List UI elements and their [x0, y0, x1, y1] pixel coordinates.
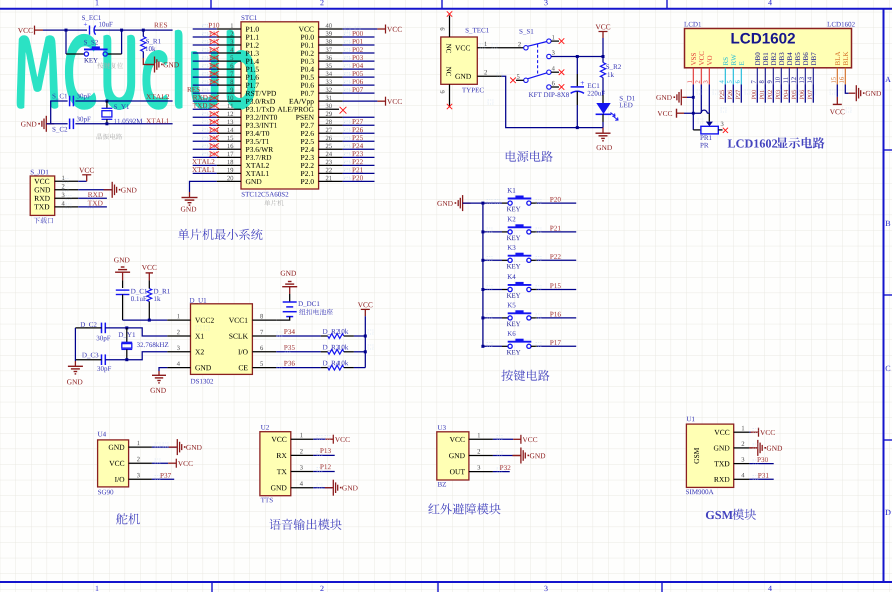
- net label RXD: [88, 192, 103, 197]
- net label P00: [752, 90, 756, 99]
- U3 pin 3: [469, 471, 493, 473]
- power port GND crystal: [46, 123, 54, 125]
- net label P37 (noerc): [209, 152, 218, 156]
- wire: [602, 78, 604, 95]
- MCU pin 17 P3.7/RD: [246, 155, 272, 160]
- wire: [276, 335, 321, 337]
- MCU pin 26 P2.5: [301, 139, 314, 144]
- wire BLA: [836, 85, 838, 97]
- power port GND reset: [146, 64, 155, 66]
- net label P14 (noerc): [209, 56, 218, 60]
- MCU pin 36 P0.3: [301, 59, 314, 64]
- MCU pin 7 P1.6: [246, 75, 259, 80]
- LCD pin 5 RW: [731, 54, 736, 65]
- resistor S_R1: [141, 37, 146, 52]
- wire MCU GND pin20: [190, 181, 217, 192]
- wire: [75, 123, 172, 125]
- net label P21: [352, 167, 363, 172]
- wire: [343, 172, 375, 174]
- key K5: [481, 316, 484, 319]
- resistor D_R1: [148, 280, 150, 288]
- wire: [343, 92, 375, 94]
- MCU U4 SG90: [98, 432, 106, 437]
- wire: [749, 447, 757, 449]
- net label P27: [352, 119, 363, 124]
- U2 pin 1: [291, 438, 313, 440]
- DS1302 pin 1: [167, 319, 190, 321]
- net label P01: [352, 39, 363, 44]
- LCD pin 12 DB5: [795, 53, 800, 66]
- power port GND lcd left: [677, 89, 681, 105]
- net label P02: [768, 90, 772, 99]
- net label P35 (noerc): [209, 136, 218, 140]
- DS1302 pin 5: [252, 367, 276, 369]
- no-erc mark: [447, 11, 452, 16]
- U2 pin 2: [291, 454, 313, 456]
- wire: [193, 164, 217, 166]
- MCU pin 35 P0.4: [301, 67, 314, 72]
- potentiometer PR1: [701, 126, 718, 134]
- wire: [46, 123, 50, 125]
- U1 pin 4: [734, 478, 750, 480]
- crystal S_Y1: [106, 101, 108, 108]
- net label P05: [792, 90, 796, 99]
- key K3: [481, 259, 484, 262]
- wire: [343, 164, 375, 166]
- LCD pin 3 VO: [707, 56, 712, 66]
- MCU pin 4 P1.3: [246, 51, 259, 56]
- LCD pin 8 DB1: [763, 53, 768, 66]
- wire: [152, 446, 176, 448]
- label download port: [34, 217, 53, 223]
- net label P24: [352, 143, 363, 148]
- MCU pin 18 XTAL2: [246, 163, 269, 168]
- MCU pin 20 GND: [246, 179, 262, 184]
- MCU pin 25 P2.4: [301, 147, 314, 152]
- U3 pin 2: [469, 455, 493, 457]
- key K6: [481, 345, 484, 348]
- MCU pin 10 P3.0/RxD: [246, 99, 275, 104]
- wire: [756, 85, 758, 103]
- node r2 top: [602, 55, 605, 58]
- MCU pin 38 P0.1: [301, 43, 314, 48]
- net label P22: [352, 159, 363, 164]
- wire: [463, 202, 483, 204]
- MCU pin 24 P2.3: [301, 155, 314, 160]
- net label P31: [758, 473, 769, 478]
- MCU pin 40 VCC: [299, 27, 314, 32]
- capacitor S_C1: [70, 96, 74, 107]
- MCU STC1 box: [241, 22, 319, 189]
- wire: [749, 431, 750, 433]
- MCU pin 3 P1.2: [246, 43, 259, 48]
- net label P13 (noerc): [209, 48, 218, 52]
- U4 pin 3: [129, 478, 152, 480]
- net label P34 (noerc): [209, 128, 218, 132]
- node vss-vcc cross: [692, 112, 695, 115]
- power port VCC power-circuit: [599, 31, 608, 33]
- pin 2 wire: [55, 189, 78, 191]
- wire: [343, 180, 375, 182]
- net label P05: [352, 71, 363, 76]
- node reset-left: [65, 29, 68, 32]
- wire: [193, 92, 217, 94]
- power port GND u4: [169, 446, 178, 448]
- wire: [193, 124, 217, 126]
- MCU pin 34 P0.5: [301, 75, 314, 80]
- wire PSEN: [343, 116, 375, 118]
- net label RES: [187, 87, 200, 92]
- LCD pin 10 DB3: [779, 53, 784, 66]
- resistor S_R2: [600, 63, 605, 78]
- wire: [75, 100, 172, 102]
- switch pin1 stub: [551, 40, 559, 42]
- wire gnd path: [502, 76, 603, 127]
- no-erc mark pot: [723, 128, 728, 133]
- wire: [812, 85, 814, 103]
- MCU pin 27 P2.6: [301, 131, 314, 136]
- capacitor S_EC1: [90, 26, 96, 35]
- net label P30: [757, 457, 768, 462]
- ground MCU: [182, 198, 198, 206]
- MCU subtitle: [242, 192, 289, 197]
- MCU pin 30 ALE/PROG: [277, 107, 313, 112]
- MCU pin 15 P3.5/T1: [246, 139, 269, 144]
- net label P17: [550, 340, 561, 345]
- MCU pin 2 P1.1: [246, 35, 259, 40]
- wire: [724, 85, 726, 103]
- wire: [493, 471, 510, 473]
- wire: [682, 96, 687, 98]
- wire: [152, 478, 174, 480]
- key K1: [483, 202, 502, 204]
- MCU pin 19 XTAL1: [246, 171, 269, 176]
- MCU pin 12 P3.2/INT0: [246, 115, 277, 120]
- wire: [354, 335, 365, 337]
- switch pin6 stub: [551, 86, 559, 88]
- capacitor EC1 220uF: [576, 57, 578, 75]
- net label TXD: [88, 201, 103, 206]
- MCU U2 TTS: [261, 425, 269, 430]
- wire: [493, 455, 513, 457]
- net label XTAL2: [192, 159, 214, 164]
- wire: [343, 76, 375, 78]
- MCUclub watermark: [17, 30, 256, 110]
- capacitor S_C2: [70, 119, 74, 130]
- node xtal1: [105, 122, 108, 125]
- no-erc mark: [447, 104, 452, 109]
- MCU pin 33 P0.6: [301, 83, 314, 88]
- wire: [75, 359, 101, 361]
- net label P15: [550, 283, 561, 288]
- wire: [193, 44, 217, 46]
- wire: [796, 85, 798, 103]
- switch pin5 stub: [516, 79, 524, 81]
- node ec1 bottom: [576, 126, 579, 129]
- U1 pin 3: [734, 463, 750, 465]
- net label P26: [728, 90, 732, 99]
- MCU pin 39 P0.0: [301, 35, 314, 40]
- MCU pin 6 P1.5: [246, 67, 259, 72]
- label TYPEC: [462, 88, 484, 93]
- MCU pin 8 P1.7: [246, 83, 259, 88]
- power port GND keypad: [463, 202, 471, 204]
- wire: [343, 44, 375, 46]
- DS1302 pin 6: [252, 351, 276, 353]
- power port VCC ds1302: [361, 308, 370, 310]
- switch lever 2-1: [528, 42, 548, 47]
- DS1302 pin 2: [167, 335, 190, 337]
- wire: [780, 85, 782, 103]
- net label P20: [352, 175, 363, 180]
- LCD pin 7 DB0: [755, 53, 760, 66]
- node xtal d2: [125, 358, 128, 361]
- ground battery: [281, 271, 296, 276]
- power port GND u2: [325, 487, 334, 489]
- caption key circuit: [501, 370, 549, 381]
- key K4: [481, 288, 484, 291]
- node reset-r1: [142, 29, 145, 32]
- caption lcd circuit: [728, 139, 777, 147]
- wire: [313, 438, 325, 440]
- wire: [121, 30, 123, 54]
- wire: [193, 132, 217, 134]
- wire VO wiper: [708, 85, 710, 114]
- MCU pin 32 P0.7: [301, 91, 314, 96]
- caption servo: [116, 513, 140, 524]
- wire: [749, 478, 773, 480]
- caption power circuit: [506, 151, 553, 162]
- wire: [343, 124, 375, 126]
- switch S_S2 KEY: [66, 53, 84, 55]
- wire: [343, 156, 375, 158]
- MCU pin 9 RST/VPD: [246, 91, 276, 96]
- DS1302 pin 7: [252, 335, 276, 337]
- wire: [276, 367, 321, 369]
- wire: [772, 85, 774, 103]
- wire: [343, 132, 375, 134]
- connector S_JD1: [31, 170, 49, 176]
- net label P34: [284, 329, 295, 334]
- power port GND lcd blk: [856, 85, 860, 101]
- wire xtal bus: [51, 101, 68, 124]
- node ec1 top: [576, 55, 579, 58]
- wire: [732, 85, 734, 103]
- pin 2 wire GND: [477, 75, 501, 77]
- power port VCC u2: [332, 435, 334, 444]
- MCU pin 37 P0.2: [301, 51, 314, 56]
- wire: [276, 351, 321, 353]
- pin 9 stub top: [449, 15, 451, 37]
- wire: [193, 156, 217, 158]
- net label RXD: [193, 95, 208, 100]
- wire: [193, 148, 217, 150]
- pin 3 wire: [55, 197, 78, 199]
- wire: [749, 463, 773, 465]
- LCD pin 2 VCC: [699, 52, 704, 66]
- wire: [35, 29, 44, 31]
- node key bus top: [481, 202, 484, 205]
- ground power-circuit: [602, 128, 604, 134]
- wire: [764, 85, 766, 103]
- net label XTAL1: [146, 118, 169, 123]
- label KFT DIP-8X8: [529, 92, 569, 97]
- wire: [193, 172, 217, 174]
- net label P23: [352, 151, 363, 156]
- capacitor D_C3: [82, 353, 98, 359]
- LCD pin 1 VSS: [691, 53, 696, 65]
- wire x1: [105, 328, 167, 336]
- power port VCC lcd left: [657, 111, 672, 116]
- net label P11 (noerc): [209, 31, 218, 35]
- MCU pin 28 P2.7: [301, 123, 314, 128]
- wire hop: [701, 110, 707, 113]
- key K2: [481, 230, 484, 233]
- MCU pin 29 PSEN: [296, 115, 314, 120]
- net label P02: [352, 47, 363, 52]
- wire: [143, 58, 154, 65]
- power port GND jd1: [104, 189, 113, 191]
- wire: [354, 351, 365, 353]
- net label P06: [352, 79, 363, 84]
- MCU pin 5 P1.4: [246, 59, 259, 64]
- wire: [193, 84, 217, 86]
- net label P17 (noerc): [209, 80, 218, 84]
- power port VCC jd1: [82, 174, 91, 176]
- wire: [95, 29, 173, 31]
- wire: [677, 112, 685, 114]
- switch pin3 wire: [551, 56, 603, 58]
- node xtal2: [105, 100, 108, 103]
- wire: [193, 76, 217, 78]
- wire: [193, 108, 217, 110]
- MCU D_U1 DS1302: [190, 298, 207, 304]
- net label P35: [284, 345, 295, 350]
- net label P01: [760, 90, 764, 99]
- battery D_DC1 coin cell: [289, 294, 291, 302]
- capacitor D_C1: [122, 280, 124, 288]
- net label P07: [808, 90, 812, 99]
- border zone numbers: [96, 0, 99, 5]
- net label P13: [320, 448, 331, 453]
- label crystal caption gray: [97, 133, 123, 139]
- switch S_S1: [520, 29, 534, 35]
- MCU pin 11 P3.1/TxD: [246, 107, 275, 112]
- connector S_TEC1 TYPEC: [466, 28, 489, 34]
- label reset caption gray: [97, 62, 123, 68]
- LCD pin 13 DB6: [803, 53, 808, 66]
- border zone letters: [885, 77, 891, 82]
- MCU U1 GSM: [687, 417, 695, 422]
- MCU pin 23 P2.2: [301, 163, 314, 168]
- U3 pin 1: [469, 438, 493, 440]
- wire: [193, 52, 217, 54]
- power port VCC D_R1: [142, 265, 157, 270]
- U1 pin 2: [734, 447, 750, 449]
- LCD pin 15 BLA: [835, 52, 840, 66]
- DS1302 pin 4: [167, 367, 190, 369]
- no-erc mark pin30: [340, 107, 347, 114]
- wire cap bus: [74, 328, 76, 361]
- wire: [193, 68, 217, 70]
- wire: [377, 100, 385, 102]
- wire: [343, 148, 375, 150]
- net label P20: [550, 197, 561, 202]
- wire: [343, 52, 375, 54]
- MCU U3 BZ: [438, 425, 446, 430]
- LCD pin 6 E: [739, 62, 744, 66]
- net label P06: [800, 90, 804, 99]
- resistor D_R3 10k: [321, 351, 328, 353]
- net label P15 (noerc): [209, 64, 218, 68]
- wire: [193, 36, 217, 38]
- MCU pin 22 P2.1: [301, 171, 314, 176]
- U2 pin 4: [291, 487, 313, 489]
- node reset-right: [120, 29, 123, 32]
- wire: [193, 100, 217, 102]
- MCU U STC1: [242, 15, 257, 20]
- net label RES: [154, 23, 167, 28]
- net label P22: [550, 254, 561, 259]
- wire: [313, 487, 332, 489]
- net label P37: [160, 473, 171, 478]
- crystal D_Y1: [126, 328, 128, 342]
- net label XTAL1: [192, 167, 214, 172]
- wire: [51, 123, 68, 125]
- wire pot left: [693, 129, 701, 131]
- wire: [343, 36, 375, 38]
- wire vcc2: [123, 319, 168, 321]
- LCD pin 9 DB2: [771, 53, 776, 66]
- wire: [343, 68, 375, 70]
- DS1302 pin 3: [167, 351, 190, 353]
- net label P25: [720, 90, 724, 99]
- LCD pin 16 BLK: [843, 52, 848, 66]
- wire: [152, 462, 168, 464]
- wire: [193, 60, 217, 62]
- power port GND u3: [512, 455, 521, 457]
- wire gnd ds1302: [159, 368, 167, 371]
- wire: [65, 30, 67, 54]
- MCU pin 1 P1.0: [246, 27, 259, 32]
- U4 pin 1: [129, 446, 152, 448]
- wire: [122, 295, 124, 321]
- net label P32 (noerc): [209, 112, 218, 116]
- wire: [788, 85, 790, 103]
- net label P36 (noerc): [209, 144, 218, 148]
- net label P25: [352, 135, 363, 140]
- wire: [313, 454, 335, 456]
- ground D_C1 top: [114, 258, 129, 263]
- wire: [313, 471, 335, 473]
- border ticks: [211, 0, 892, 592]
- power port VCC reset: [34, 26, 36, 35]
- pin 4 wire: [55, 206, 78, 208]
- pin 1 wire VCC: [477, 47, 523, 49]
- wire: [354, 367, 365, 369]
- net label P36: [284, 361, 295, 366]
- wire VCC pin down: [700, 85, 702, 114]
- wire x2: [105, 352, 167, 360]
- wire: [343, 140, 375, 142]
- switch pin4 stub: [551, 71, 559, 73]
- net label P10: [209, 23, 220, 28]
- wire: [804, 85, 806, 103]
- net label P00: [352, 31, 363, 36]
- DS1302 pin 8: [252, 319, 276, 321]
- net label P27: [736, 90, 740, 99]
- wire BLK: [845, 85, 848, 94]
